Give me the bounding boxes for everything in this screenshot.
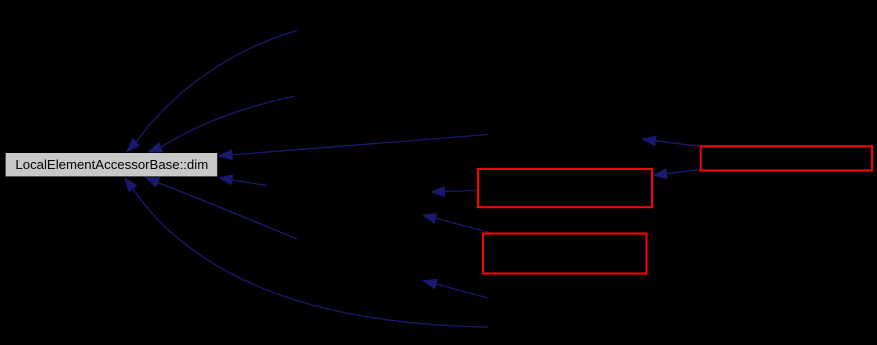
edge E6: caller edge from lower right into node bottom bbox=[144, 177, 297, 239]
edge E3: long caller edge from invisible node into node right bbox=[218, 135, 489, 161]
node A: right red truncated node bbox=[701, 146, 872, 170]
edge E2: straight caller edge into node top bbox=[147, 96, 295, 153]
node C: lower red truncated node bbox=[483, 234, 647, 274]
edge E5: big curved caller edge from lower right into node bottom bbox=[124, 177, 488, 327]
edge E10: edge from right red node to invisible node bbox=[641, 135, 700, 146]
edge E7: edge from middle red node to invisible node bbox=[430, 186, 477, 197]
edge E1: curved caller edge from upper right into node top bbox=[126, 31, 297, 153]
svg-text:LocalElementAccessorBase::dim: LocalElementAccessorBase::dim bbox=[15, 157, 208, 172]
edge E8: edge from lower red node to invisible node bbox=[422, 213, 490, 233]
edge E11: edge from right red node to middle red node bbox=[652, 168, 700, 179]
edge E9: edge from invisible bottom node to invisible node bbox=[422, 279, 488, 298]
node B: middle red truncated node bbox=[478, 169, 652, 207]
edge E4: short caller edge into node right lower bbox=[218, 175, 268, 186]
node main: LocalElementAccessorBase::dim bbox=[6, 153, 218, 176]
